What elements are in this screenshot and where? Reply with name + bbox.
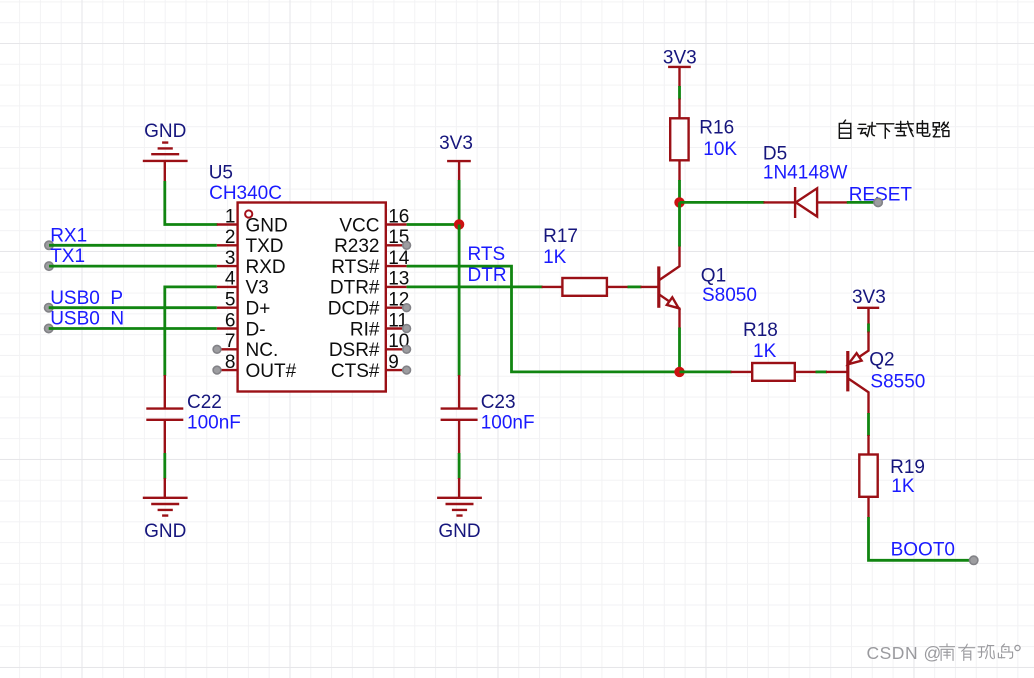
svg-text:5: 5 [225,290,236,311]
op-amp U5 CH340C body [209,163,386,392]
watermark CSDN [867,643,1021,663]
svg-text:S8550: S8550 [870,371,925,392]
svg-text:14: 14 [388,248,410,269]
wire Q1 emitter to rail [678,328,681,372]
svg-text:1: 1 [225,206,236,227]
wire DTR pin13 to R17 [407,285,543,288]
svg-text:R18: R18 [743,320,778,341]
svg-text:OUT#: OUT# [246,361,297,382]
wire D5 to RESET [847,201,878,204]
wire R17 to Q1 base [628,285,642,288]
svg-text:RTS: RTS [468,244,506,265]
ground flag below C23 [437,478,482,542]
svg-text:3: 3 [225,248,236,269]
svg-text:100nF: 100nF [481,412,535,433]
svg-text:BOOT0: BOOT0 [891,540,955,561]
svg-text:USB0_N: USB0_N [50,309,124,330]
wire pin16 VCC to node [407,223,460,226]
degree mark [1015,645,1020,650]
wire GND to pin1 [165,181,218,225]
node RESET [849,185,913,207]
pin 9 CTS# [331,352,411,382]
svg-text:6: 6 [225,310,236,331]
svg-text:1K: 1K [543,247,567,268]
svg-text:Q1: Q1 [701,266,726,287]
svg-text:S8050: S8050 [702,285,757,306]
wire node to C23 [458,225,461,377]
svg-text:CH340C: CH340C [209,183,282,204]
char 电 [917,121,930,137]
svg-text:3V3: 3V3 [439,133,473,154]
svg-text:R19: R19 [890,457,925,478]
char 南 [940,644,955,661]
svg-text:CSDN @: CSDN @ [867,643,942,663]
svg-text:DCD#: DCD# [328,299,380,320]
pin 3 RXD [217,248,286,278]
wire RX1 to pin2 [49,244,217,247]
svg-text:C22: C22 [187,392,222,413]
pin 12 DCD# [328,290,411,320]
svg-text:RTS#: RTS# [331,257,380,278]
svg-text:10K: 10K [703,139,737,160]
transistor Q2 S8550 [826,332,925,415]
char 岛 [998,644,1012,658]
svg-text:GND: GND [144,121,186,142]
char 自 [839,120,850,138]
svg-text:D-: D- [246,319,266,340]
char 动 [858,122,876,136]
node RX1 [45,225,87,249]
power flag 3V3 at Q2 [852,287,886,324]
svg-text:3V3: 3V3 [663,47,697,68]
svg-text:D5: D5 [763,143,787,164]
svg-text:1K: 1K [753,341,777,362]
svg-text:4: 4 [225,269,236,290]
svg-text:DTR#: DTR# [330,278,380,299]
pin 15 R232 [334,227,410,257]
wire junction to D5 [680,201,765,204]
pin 10 DSR# [329,331,411,361]
resistor R16 10K [670,99,737,182]
svg-text:VCC: VCC [339,215,379,236]
svg-text:GND: GND [246,215,288,236]
resistor R19 1K [859,435,925,518]
svg-text:13: 13 [388,269,409,290]
wire junction to R18 [680,370,732,373]
label title 自动下载电路 [839,120,949,138]
wire C23 to GND [458,453,461,479]
svg-text:NC.: NC. [246,340,279,361]
pin 4 V3 [217,269,269,299]
svg-text:V3: V3 [246,278,269,299]
svg-text:8: 8 [225,352,236,373]
svg-text:D+: D+ [246,299,271,320]
pin 8 OUT# [213,352,297,382]
svg-text:3V3: 3V3 [852,287,886,308]
svg-text:GND: GND [438,521,480,542]
capacitor C22 100nF [146,375,241,454]
svg-text:DTR: DTR [468,265,507,286]
char 下 [877,124,894,139]
svg-text:USB0_P: USB0_P [50,288,123,309]
pin 1 GND [217,206,288,236]
resistor R17 1K [542,226,629,296]
power flag 3V3 top [663,47,697,87]
resistor R18 1K [731,320,817,381]
wire 3V3 to VCC node [458,180,461,225]
transistor Q1 S8050 [641,246,757,329]
svg-text:TXD: TXD [246,236,284,257]
pin 7 NC [213,331,278,361]
wire R16 to junction [678,180,681,202]
node USB0_N [45,309,125,333]
power flag GND top [143,121,188,182]
pin 1 dot [245,210,252,217]
svg-text:R17: R17 [543,226,578,247]
char 路 [933,122,949,137]
svg-text:100nF: 100nF [187,412,241,433]
char 有 [959,644,975,660]
pin 16 VCC [339,206,409,236]
svg-text:7: 7 [225,331,236,352]
node USB0_P [45,288,124,312]
wire RTS pin14 to R18 rail [407,266,680,372]
svg-text:RI#: RI# [350,319,380,340]
wire V3 pin4 to C22 [165,287,217,376]
char 孤 [978,645,994,659]
junction emitter rail [674,367,684,377]
char 载 [895,121,913,136]
wire 3V3 to Q2 emitter [867,324,870,333]
svg-text:RX1: RX1 [50,225,87,246]
pin 6 D- [217,310,266,340]
power flag 3V3 above C23 [439,133,473,181]
svg-text:9: 9 [388,352,399,373]
svg-text:1N4148W: 1N4148W [763,163,848,184]
pin 2 TXD [217,227,284,257]
svg-text:U5: U5 [209,163,233,184]
svg-text:Q2: Q2 [869,349,894,370]
svg-text:1K: 1K [891,476,915,497]
svg-text:DSR#: DSR# [329,340,380,361]
pin 5 D+ [217,290,271,320]
svg-text:GND: GND [144,521,186,542]
svg-text:TX1: TX1 [50,246,85,267]
wire Q2 collector to R19 [867,413,870,436]
wire Q1 collector to junction [678,202,681,246]
ground flag below C22 [143,478,188,542]
wire TX1 to pin3 [49,265,217,268]
diode D5 1N4148W [763,143,848,218]
node TX1 [45,246,85,270]
pin 11 RI# [350,310,411,340]
svg-text:C23: C23 [481,392,516,413]
wire USB0_N to pin6 [49,327,217,330]
svg-text:2: 2 [225,227,236,248]
wire USB0_P to pin5 [49,306,217,309]
svg-text:R16: R16 [699,117,734,138]
svg-text:16: 16 [388,206,409,227]
junction R16/D5/Q1 [674,197,684,207]
pin 13 DTR# [330,269,409,299]
node BOOT0 [891,540,978,565]
wire R18 to Q2 base [816,370,828,373]
junction VCC node [454,219,464,229]
wire R19 to BOOT0 [869,517,974,560]
svg-text:R232: R232 [334,236,379,257]
capacitor C23 100nF [441,375,535,454]
wire 3V3 to R16 [678,86,681,100]
svg-text:CTS#: CTS# [331,361,380,382]
svg-text:RXD: RXD [246,257,286,278]
pin 14 RTS# [331,248,410,278]
wire C22 to GND [163,453,166,479]
